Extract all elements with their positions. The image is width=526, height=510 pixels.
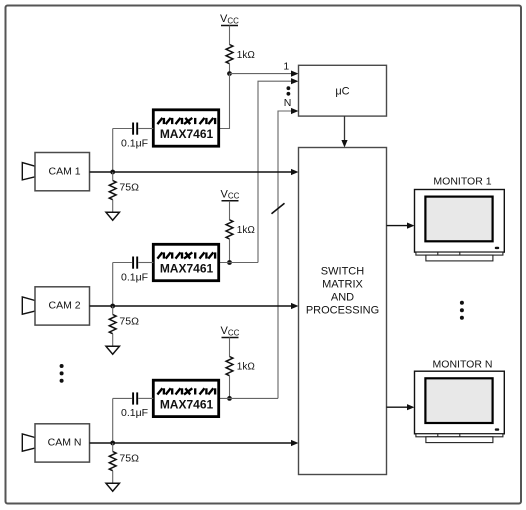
svg-text:1kΩ: 1kΩ [237, 225, 256, 236]
svg-text:PROCESSING: PROCESSING [306, 305, 379, 317]
svg-text:AND: AND [331, 292, 354, 304]
wire switch matrix to monitor N [387, 406, 409, 408]
capacitor C1 0.1uF [113, 123, 154, 150]
camera CAM 1 [22, 153, 89, 191]
svg-text:MATRIX: MATRIX [322, 279, 363, 291]
wire R6 to ground [112, 471, 114, 484]
svg-text:MONITOR N: MONITOR N [433, 359, 493, 371]
resistor R5 1k [226, 357, 255, 376]
node D junction CAM2 [110, 304, 115, 309]
capacitor C2 0.1uF [113, 257, 154, 284]
wire R4 to ground [112, 334, 114, 347]
ground ch2 [106, 346, 119, 354]
svg-text:75Ω: 75Ω [119, 316, 139, 328]
svg-text:SWITCH: SWITCH [321, 266, 364, 278]
monitor N [415, 359, 505, 443]
ground ch1 [106, 212, 119, 220]
IC U3 MAX7461 [153, 380, 218, 416]
svg-text:1kΩ: 1kΩ [237, 362, 256, 373]
wire C3 down to CAMN node [112, 398, 114, 443]
node A junction [227, 71, 232, 76]
wire R1 to node A [229, 64, 231, 74]
power VCC channel 3 [221, 325, 240, 337]
resistor R1 1k [226, 45, 255, 64]
svg-text:N: N [284, 97, 292, 109]
svg-text:MONITOR 1: MONITOR 1 [433, 176, 491, 188]
wire CAM1 to switch matrix [90, 171, 293, 173]
wire CAM2 to switch matrix [90, 305, 293, 307]
svg-text:VCC: VCC [221, 325, 240, 337]
wire C2 down to CAM2 node [112, 263, 114, 307]
dots between CAM2 and CAM N [60, 364, 64, 383]
wire C1 down to CAM1 node [112, 129, 114, 173]
wire VCC2 to R3 [229, 201, 231, 220]
arrow into switch matrix ch1 [291, 169, 299, 175]
node E junction [227, 396, 232, 401]
svg-text:MAX7461: MAX7461 [160, 127, 214, 141]
wire VCC1 to R1 [229, 26, 231, 45]
switch matrix block [299, 148, 387, 475]
arrow into switch matrix ch2 [291, 303, 299, 309]
dots between monitors [460, 301, 464, 320]
capacitor C3 0.1uF [113, 392, 154, 419]
wire U3 output through node E [220, 397, 278, 399]
svg-text:MAX7461: MAX7461 [160, 262, 214, 276]
wire uC to switch matrix [344, 116, 346, 141]
arrow into uC input N [291, 108, 299, 114]
resistor R2 75ohm [109, 172, 139, 200]
wire R3 to node C [229, 239, 231, 263]
arrow into uC input 2 [291, 78, 299, 84]
svg-text:MAX7461: MAX7461 [160, 397, 214, 411]
wire node A down to U1 output [220, 74, 230, 129]
bus slash on ch3 line [272, 203, 285, 214]
resistor R3 1k [226, 220, 255, 239]
ground chN [106, 483, 119, 491]
resistor R6 75ohm [109, 443, 139, 471]
svg-text:CAM N: CAM N [48, 436, 82, 448]
camera CAM N [22, 424, 89, 462]
wire node A to uC input 1 [230, 73, 293, 75]
node B junction CAM1 [110, 170, 115, 175]
node F junction CAMN [110, 441, 115, 446]
wire CAMN to switch matrix [90, 442, 293, 444]
dots uC inputs [287, 86, 291, 90]
wire VCC3 to R5 [229, 338, 231, 357]
wire R5 to node E [229, 376, 231, 399]
wire ch3 to uC input N [278, 111, 292, 398]
wire ch2 to uC input 2 [258, 81, 292, 262]
arrow into monitor 1 [407, 223, 415, 229]
op-amp uC box [299, 65, 387, 116]
svg-text:μC: μC [335, 86, 349, 98]
power VCC channel 2 [221, 188, 240, 200]
svg-text:75Ω: 75Ω [119, 182, 139, 194]
svg-text:75Ω: 75Ω [119, 453, 139, 465]
camera CAM 2 [22, 287, 89, 325]
monitor 1 [415, 176, 505, 261]
svg-text:0.1μF: 0.1μF [121, 271, 148, 283]
svg-text:VCC: VCC [221, 188, 240, 200]
resistor R4 75ohm [109, 306, 139, 334]
svg-text:0.1μF: 0.1μF [121, 407, 148, 419]
svg-text:CAM 2: CAM 2 [49, 299, 81, 311]
node C junction [227, 260, 232, 265]
wire R2 to ground [112, 200, 114, 213]
wire U2 output through node C [220, 262, 258, 264]
arrow into uC input 1 [291, 71, 299, 77]
svg-text:1: 1 [283, 61, 289, 73]
svg-text:1kΩ: 1kΩ [237, 50, 256, 61]
svg-text:CAM 1: CAM 1 [49, 165, 81, 177]
power VCC channel 1 [220, 13, 239, 25]
arrow into monitor N [407, 404, 415, 410]
svg-text:VCC: VCC [220, 13, 239, 25]
IC U1 MAX7461 [153, 110, 218, 146]
arrow into switch matrix chN [291, 440, 299, 446]
svg-text:0.1μF: 0.1μF [121, 137, 148, 149]
wire switch matrix to monitor 1 [387, 225, 409, 227]
arrow into switch matrix top [341, 140, 347, 148]
IC U2 MAX7461 [153, 244, 218, 280]
